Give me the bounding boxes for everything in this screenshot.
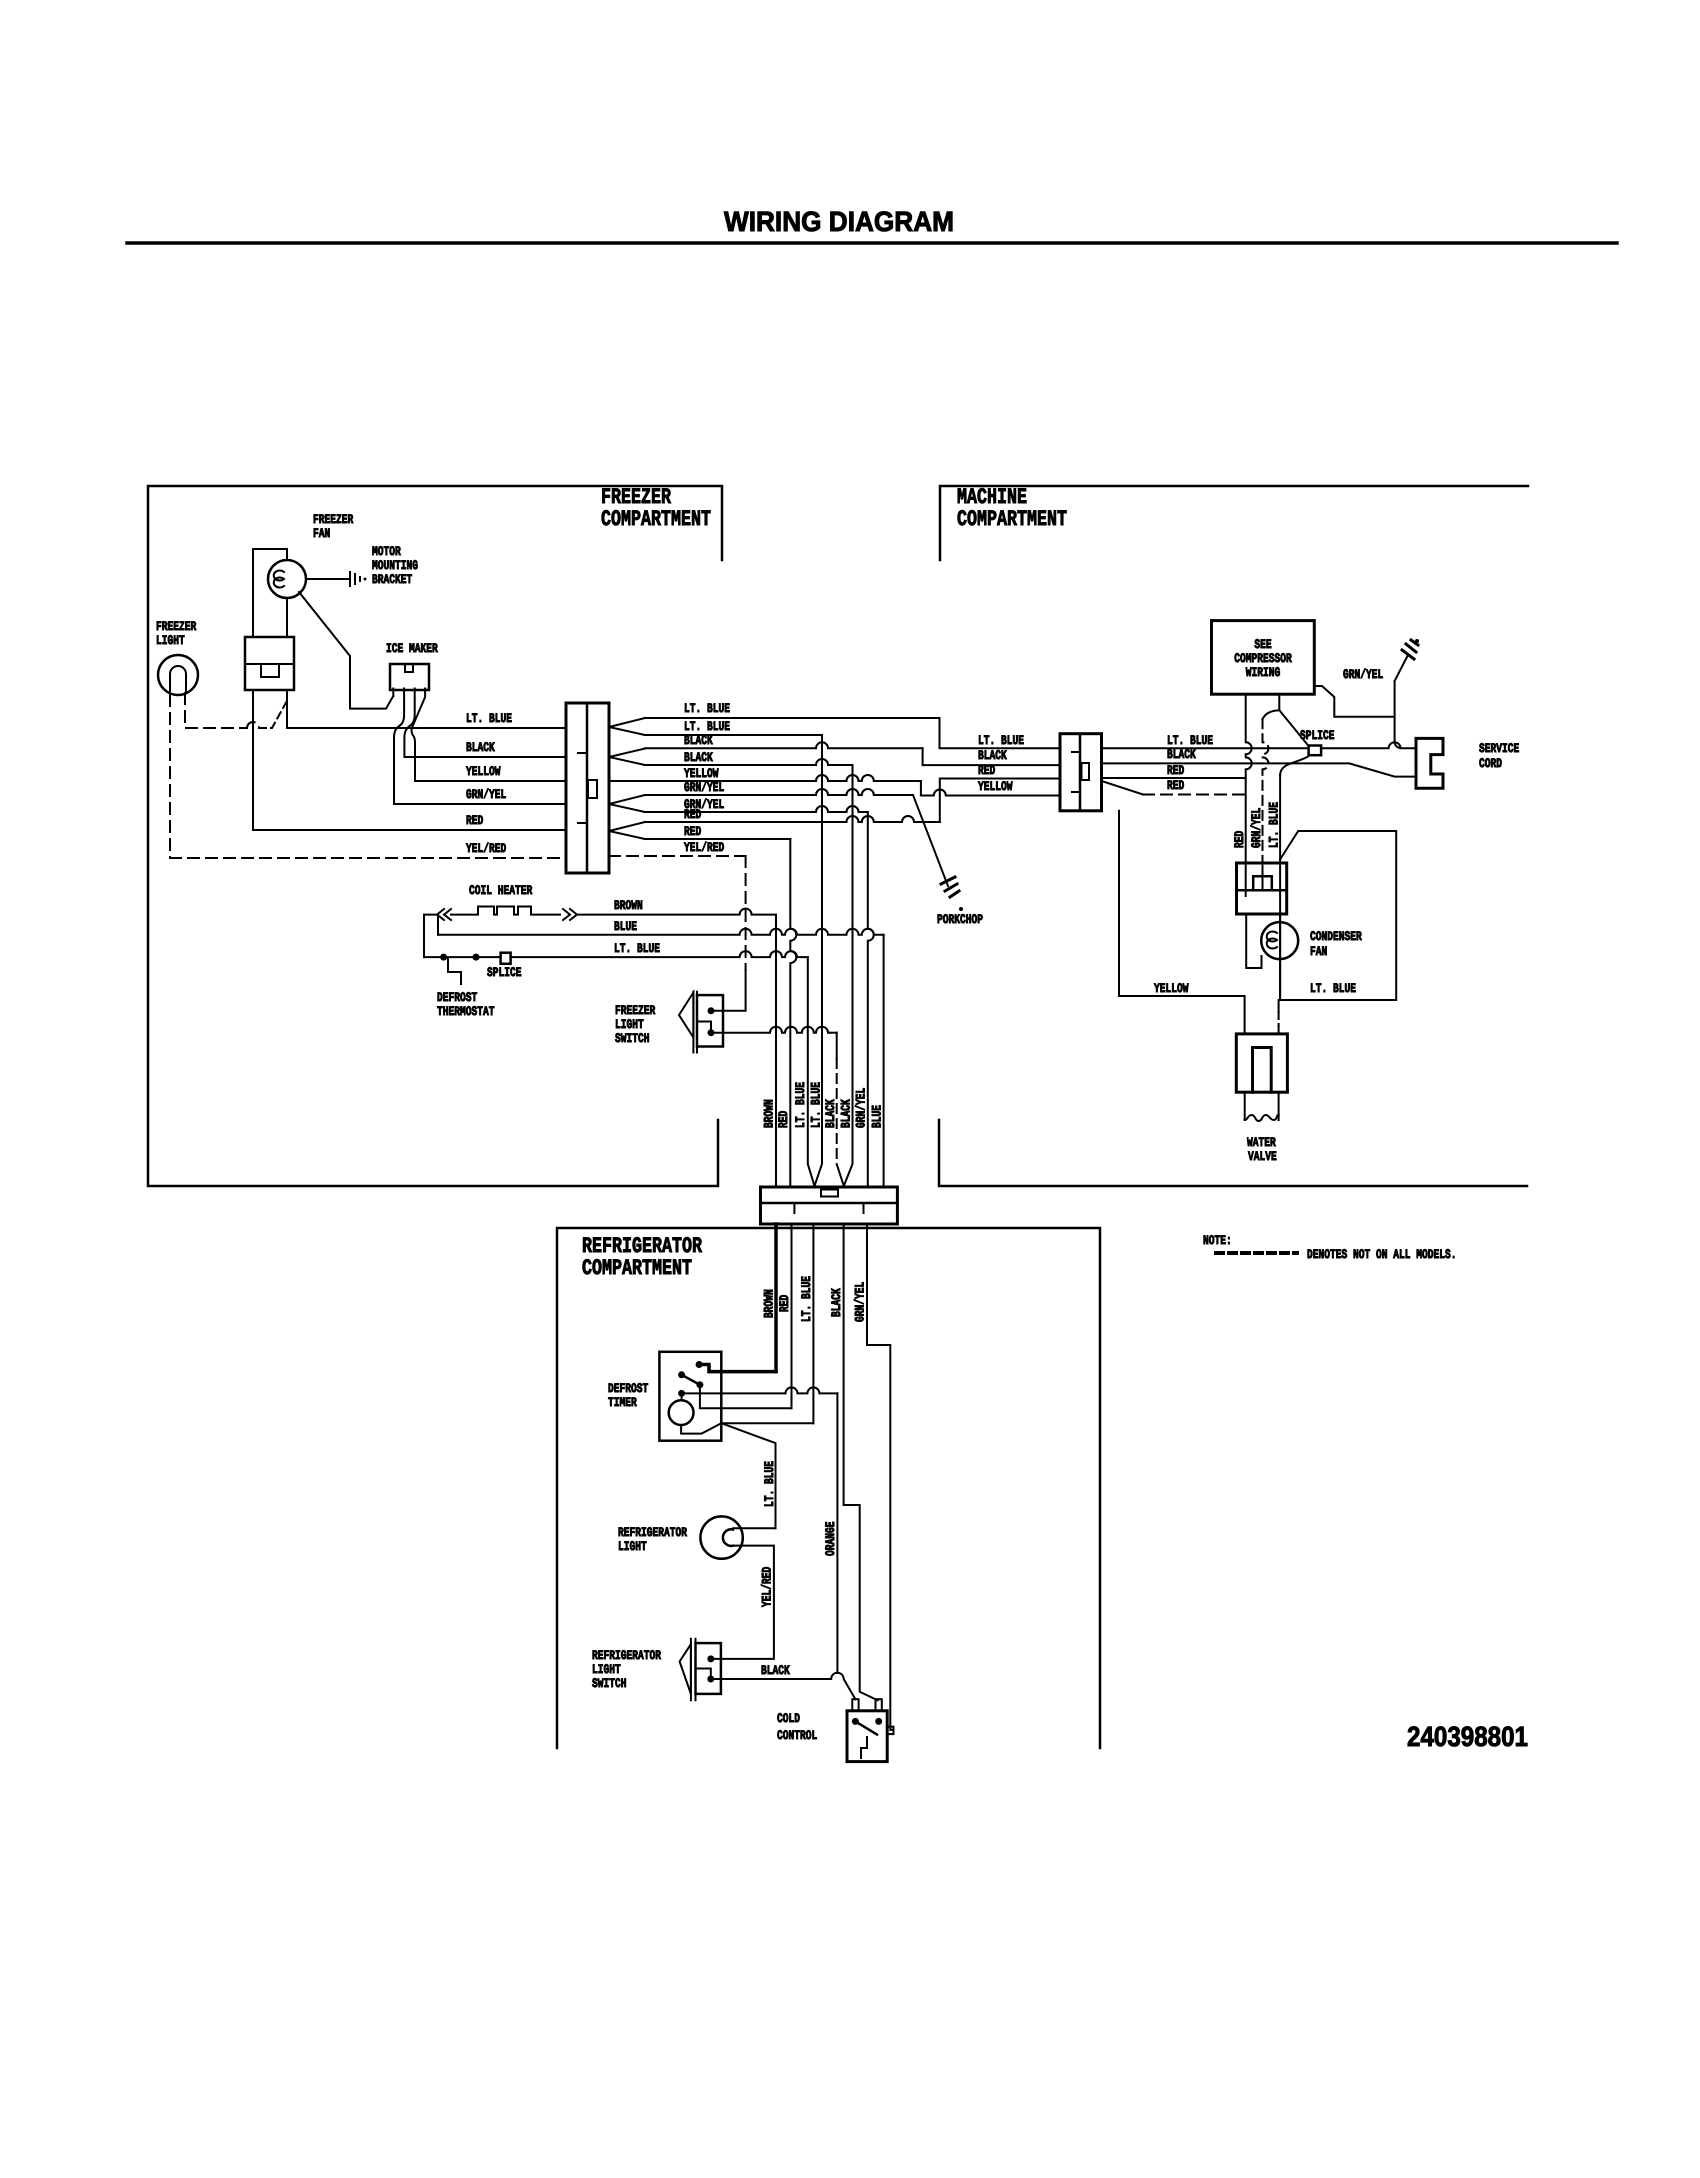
svg-text:PORKCHOP: PORKCHOP [937, 912, 983, 927]
timer switch arm [678, 1371, 685, 1378]
timer contact 1 and brown wire [696, 1361, 703, 1368]
svg-text:BLUE: BLUE [614, 919, 637, 934]
svg-text:LT. BLUE: LT. BLUE [684, 719, 730, 734]
svg-text:SWITCH: SWITCH [592, 1676, 627, 1691]
svg-text:COMPARTMENT: COMPARTMENT [582, 1256, 692, 1281]
wire timer to refrigerator light [721, 1423, 775, 1528]
wire from fan motor down to ice maker bus [299, 592, 393, 709]
wire red dashed [1102, 781, 1144, 795]
svg-text:BLACK: BLACK [466, 740, 495, 755]
freezer compartment boundary [148, 486, 722, 1186]
wire yellow down to water valve [1244, 996, 1246, 1034]
svg-text:MOUNTING: MOUNTING [372, 558, 418, 573]
svg-text:RED: RED [1232, 831, 1247, 848]
timer contact 2 and red wire [700, 1385, 792, 1408]
wire lt.blue from splice down [1280, 755, 1310, 775]
wire red vertical [790, 839, 796, 1187]
svg-text:YELLOW: YELLOW [978, 779, 1013, 794]
wire black below connector [844, 1224, 878, 1700]
machine compartment boundary [940, 486, 1528, 560]
svg-text:COMPARTMENT: COMPARTMENT [957, 507, 1067, 532]
svg-text:ICE MAKER: ICE MAKER [386, 641, 438, 656]
machine compartment bottom boundary [939, 1120, 1527, 1186]
defrost thermostat [440, 954, 447, 961]
svg-text:COMPRESSOR: COMPRESSOR [1234, 651, 1292, 666]
svg-text:GRN/YEL: GRN/YEL [1343, 667, 1383, 682]
svg-text:LT. BLUE: LT. BLUE [684, 701, 730, 716]
service cord connector [1416, 738, 1443, 788]
wire lt.blue vertical 1 [808, 957, 815, 1186]
svg-text:WIRING DIAGRAM: WIRING DIAGRAM [724, 206, 954, 237]
svg-text:SERVICE: SERVICE [1479, 741, 1519, 756]
svg-text:FREEZER: FREEZER [313, 512, 353, 527]
machine compartment connector [1060, 734, 1102, 811]
svg-text:CORD: CORD [1479, 756, 1502, 771]
condenser fan motor [1261, 922, 1298, 959]
svg-text:GRN/YEL: GRN/YEL [684, 780, 724, 795]
water valve connector [1236, 1034, 1287, 1092]
timer motor bottom wire [681, 1423, 721, 1433]
svg-text:BROWN: BROWN [762, 1289, 777, 1318]
wire grn/yel below connector [867, 1224, 894, 1730]
timer motor [681, 1393, 683, 1400]
svg-text:BLACK: BLACK [823, 1099, 838, 1128]
svg-text:BLACK: BLACK [761, 1663, 790, 1678]
svg-text:LT. BLUE: LT. BLUE [799, 1276, 814, 1322]
refrigerator compartment boundary [557, 1228, 1100, 1748]
svg-text:DENOTES NOT ON ALL MODELS.: DENOTES NOT ON ALL MODELS. [1307, 1247, 1457, 1262]
svg-text:LIGHT: LIGHT [618, 1539, 647, 1554]
svg-text:BRACKET: BRACKET [372, 572, 412, 587]
defrost timer box [659, 1352, 721, 1441]
svg-text:GRN/YEL: GRN/YEL [466, 787, 506, 802]
svg-text:SEE: SEE [1254, 637, 1271, 652]
porkchop ground [941, 877, 959, 897]
svg-text:YEL/RED: YEL/RED [466, 841, 506, 856]
cold control [847, 1711, 887, 1762]
wire brown below connector [774, 1224, 778, 1372]
svg-text:LT. BLUE: LT. BLUE [809, 1082, 824, 1128]
svg-text:SPLICE: SPLICE [1300, 728, 1335, 743]
svg-text:VALVE: VALVE [1248, 1149, 1277, 1164]
svg-text:BLACK: BLACK [978, 748, 1007, 763]
wire blue vertical [883, 935, 885, 1187]
svg-text:TIMER: TIMER [608, 1395, 637, 1410]
svg-text:MOTOR: MOTOR [372, 544, 401, 559]
title underline [127, 241, 1617, 245]
wire to motor mounting bracket [306, 578, 348, 580]
cold control right pin [887, 1727, 893, 1734]
wire red below connector [791, 1224, 793, 1408]
wire switch to black bundle [711, 1027, 830, 1033]
svg-text:LT. BLUE: LT. BLUE [1167, 733, 1213, 748]
svg-text:YEL/RED: YEL/RED [684, 840, 724, 855]
svg-text:RED: RED [1167, 763, 1184, 778]
wire red compressor lead down [1246, 694, 1252, 863]
svg-text:COMPARTMENT: COMPARTMENT [601, 507, 711, 532]
svg-text:LIGHT: LIGHT [156, 633, 185, 648]
wire black pair taper [609, 749, 645, 766]
svg-text:YELLOW: YELLOW [466, 764, 501, 779]
wire red pair taper [609, 822, 645, 839]
porkchop wire diagonal [913, 795, 948, 886]
svg-text:240398801: 240398801 [1407, 1721, 1528, 1752]
svg-text:YELLOW: YELLOW [684, 766, 719, 781]
freezer fan duct [253, 549, 287, 637]
freezer fan motor [268, 560, 306, 598]
ground symbol grn/yel [1395, 655, 1408, 681]
wire red to compressor lead [1102, 777, 1246, 779]
coil heater arrows [437, 909, 451, 920]
svg-text:REFRIGERATOR: REFRIGERATOR [592, 1648, 661, 1663]
refrigerator compartment connector [761, 1187, 898, 1224]
freezer fan block [245, 637, 294, 690]
wire lt.blue below connector [812, 1224, 814, 1423]
refrigerator light switch [680, 1644, 691, 1694]
svg-text:SWITCH: SWITCH [615, 1031, 650, 1046]
wire splice to service cord [1321, 742, 1416, 748]
svg-text:DEFROST: DEFROST [437, 990, 477, 1005]
svg-text:LT. BLUE: LT. BLUE [466, 711, 512, 726]
wire fan block right to lt.blue row [286, 690, 288, 728]
wire terminal box to condenser fan [1246, 914, 1261, 968]
ice maker pin wires [394, 689, 404, 805]
wire black vertical 2 [844, 765, 853, 1186]
svg-text:LT. BLUE: LT. BLUE [978, 733, 1024, 748]
wire refrigerator light top [733, 1527, 776, 1529]
svg-text:BROWN: BROWN [614, 898, 643, 913]
ice maker [390, 664, 429, 690]
wire lt.blue dashed from freezer light [185, 693, 247, 728]
svg-text:CONTROL: CONTROL [777, 1728, 817, 1743]
wire black vertical 1 from switch [836, 1033, 838, 1059]
svg-text:BLACK: BLACK [839, 1099, 854, 1128]
svg-text:BROWN: BROWN [762, 1099, 777, 1128]
svg-text:WATER: WATER [1247, 1135, 1276, 1150]
svg-text:YEL/RED: YEL/RED [760, 1567, 775, 1607]
svg-text:REFRIGERATOR: REFRIGERATOR [618, 1525, 687, 1540]
compressor housing outline [1119, 811, 1244, 996]
wire grn/yel compressor lead split [1279, 694, 1308, 746]
wire fan block left to red row [252, 690, 254, 830]
wire lt.blue to splice [1102, 747, 1309, 749]
svg-text:BLACK: BLACK [684, 733, 713, 748]
freezer light [158, 655, 198, 695]
wire refrigerator light bottom yel/red [711, 1546, 774, 1659]
svg-text:THERMOSTAT: THERMOSTAT [437, 1004, 495, 1019]
timer contact 3 and orange wire [678, 1390, 685, 1397]
svg-text:LT. BLUE: LT. BLUE [1310, 981, 1356, 996]
svg-text:FREEZER: FREEZER [615, 1003, 655, 1018]
freezer compartment connector [566, 703, 609, 873]
svg-text:RED: RED [1167, 778, 1184, 793]
svg-text:CONDENSER: CONDENSER [1310, 929, 1362, 944]
svg-text:FAN: FAN [1310, 944, 1327, 959]
svg-text:LT. BLUE: LT. BLUE [614, 941, 660, 956]
svg-text:WIRING: WIRING [1246, 665, 1281, 680]
svg-text:COIL HEATER: COIL HEATER [469, 883, 532, 898]
coil heater element [424, 907, 560, 915]
wire grn/yel pair taper [609, 795, 645, 812]
svg-text:BLACK: BLACK [829, 1288, 844, 1317]
svg-text:RED: RED [978, 763, 995, 778]
svg-text:FREEZER: FREEZER [156, 619, 196, 634]
svg-text:GRN/YEL: GRN/YEL [854, 1088, 869, 1128]
svg-text:DEFROST: DEFROST [608, 1381, 648, 1396]
water valve coil [1245, 1092, 1279, 1120]
svg-text:ORANGE: ORANGE [823, 1521, 838, 1556]
svg-text:LIGHT: LIGHT [592, 1662, 621, 1677]
svg-text:LIGHT: LIGHT [615, 1017, 644, 1032]
refrigerator light [700, 1516, 742, 1558]
wire lt.blue pair taper [609, 718, 645, 735]
wire yel/red dashed from freezer light [169, 695, 171, 858]
svg-text:LT. BLUE: LT. BLUE [793, 1082, 808, 1128]
wire lt.blue vertical 2 [815, 735, 823, 1186]
splice on lt.blue [501, 953, 511, 964]
wire yel/red dashed to switch [745, 856, 747, 970]
svg-text:BLACK: BLACK [684, 750, 713, 765]
wire grn/yel vertical [868, 812, 874, 1187]
wire lt.blue down to water valve [1278, 1000, 1280, 1012]
wire grn/yel from compressor to ground and cord [1314, 686, 1394, 717]
compressor terminal box [1237, 863, 1287, 914]
svg-text:RED: RED [684, 807, 701, 822]
svg-text:FAN: FAN [313, 526, 330, 541]
svg-text:BLUE: BLUE [870, 1105, 885, 1128]
svg-text:GRN/YEL: GRN/YEL [853, 1282, 868, 1322]
wire orange vertical [836, 1393, 838, 1673]
wire lt.blue terminate at timer [721, 1422, 813, 1424]
ice maker pins [392, 689, 394, 697]
terminal box leads inside [1246, 863, 1263, 896]
freezer light switch [679, 993, 693, 1038]
svg-text:RED: RED [466, 813, 483, 828]
svg-text:LT. BLUE: LT. BLUE [762, 1461, 777, 1507]
wire brown vertical [775, 915, 777, 1187]
svg-text:NOTE:: NOTE: [1203, 1233, 1232, 1248]
wire black to service cord [1102, 763, 1417, 776]
see compressor wiring box [1212, 621, 1315, 695]
coil heater left closure [424, 915, 438, 958]
svg-text:COLD: COLD [777, 1711, 800, 1726]
svg-text:YELLOW: YELLOW [1154, 981, 1189, 996]
svg-text:RED: RED [777, 1295, 792, 1312]
svg-text:RED: RED [684, 824, 701, 839]
svg-text:RED: RED [776, 1111, 791, 1128]
svg-text:GRN/YEL: GRN/YEL [1249, 808, 1264, 848]
motor mounting bracket [350, 572, 360, 586]
svg-text:SPLICE: SPLICE [487, 965, 522, 980]
